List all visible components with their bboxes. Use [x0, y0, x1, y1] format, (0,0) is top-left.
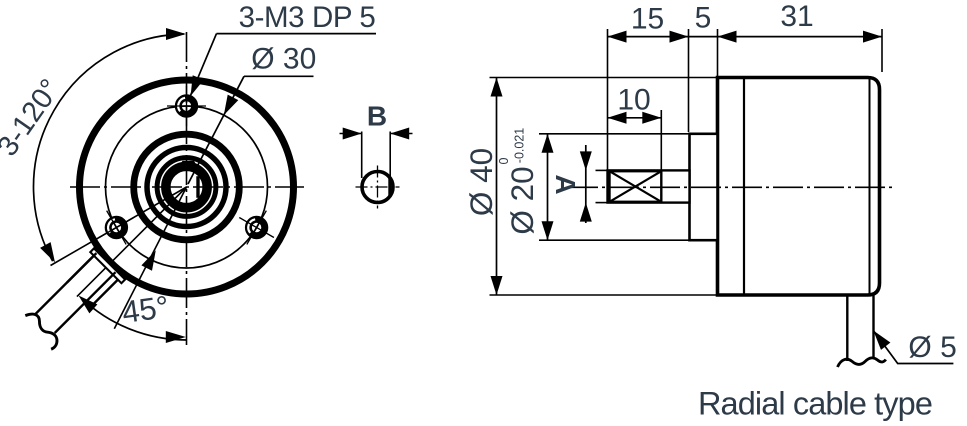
cable lower edge: [55, 272, 116, 333]
section B v centerline: [377, 166, 379, 209]
ray 117deg: [114, 187, 186, 329]
svg-text:Radial cable type: Radial cable type: [698, 386, 932, 422]
bolt hole right ticks: [230, 201, 284, 255]
svg-text:0: 0: [497, 157, 511, 164]
side body seam left: [743, 78, 745, 296]
section B flat chord: [388, 177, 391, 197]
cable upper edge: [36, 253, 97, 314]
section B left ext line: [361, 132, 363, 179]
cable boot upper edge: [67, 256, 94, 283]
top dim arrow 31 left: [718, 31, 737, 43]
dia40 ext top: [490, 77, 719, 79]
dia5 leader: [873, 331, 953, 364]
bolt hole top h tick: [167, 105, 206, 107]
svg-text:3-M3 DP 5: 3-M3 DP 5: [239, 1, 376, 34]
flat box diagonal 1: [610, 171, 662, 202]
cable axis ray 135deg: [77, 187, 187, 297]
section B dim left tail: [340, 133, 362, 135]
side shaft flat box: [610, 171, 662, 202]
side view body: [718, 78, 880, 296]
svg-text:Ø 5: Ø 5: [908, 331, 956, 364]
svg-text:31: 31: [780, 0, 813, 33]
side cable left edge: [846, 295, 848, 361]
A bottom arrow: [580, 203, 592, 222]
dia40 top arrow: [491, 78, 503, 97]
section B right arrow: [390, 128, 409, 140]
svg-text:B: B: [367, 101, 387, 132]
45 bottom arrow: [166, 331, 186, 343]
10 dim left arrow: [608, 112, 627, 124]
boss circle Ø20: [134, 134, 240, 240]
3-120 top arrow: [166, 28, 186, 40]
ext line body right: [881, 29, 883, 72]
dia20 top arrow: [542, 134, 554, 153]
svg-text:Ø 30: Ø 30: [251, 43, 316, 76]
cable gland plate: [90, 248, 125, 283]
3-M3 leader arrow: [191, 75, 204, 96]
svg-text:Ø 20: Ø 20: [504, 166, 540, 234]
bolt hole right thread arc: [248, 219, 255, 233]
keyway bump: [179, 161, 198, 168]
dia5 leader arrow: [873, 331, 890, 350]
10 ext line: [660, 110, 662, 171]
dia30 leader: [188, 76, 244, 184]
inner circle 1: [147, 148, 226, 227]
vertical centerline: [186, 32, 188, 345]
svg-text:Ø 40: Ø 40: [463, 148, 499, 216]
side cable right edge: [872, 295, 874, 357]
cable break squiggle: [21, 310, 61, 350]
A stub bottom: [596, 202, 610, 204]
bolt hole top v tick: [186, 86, 188, 126]
dia30 underline: [244, 75, 314, 77]
bolt hole right ring: [248, 219, 264, 235]
side boss rect: [690, 134, 718, 240]
top dim arrow 15 right: [670, 31, 689, 43]
svg-text:-0.021: -0.021: [513, 128, 527, 163]
svg-text:45°: 45°: [120, 289, 171, 330]
dia20 dim line: [547, 134, 549, 240]
dia40 dim line: [496, 78, 498, 296]
dia20 bottom arrow: [542, 221, 554, 240]
ext line shaft tip: [607, 29, 609, 170]
svg-text:10: 10: [617, 84, 650, 117]
bolt hole ray 150deg: [51, 187, 187, 266]
inner circle 2: [157, 158, 216, 217]
section B dim right tail: [390, 133, 412, 135]
svg-text:3-120°: 3-120°: [0, 74, 67, 163]
section B right ext line: [389, 132, 391, 179]
shaft bore flat chord: [196, 176, 199, 198]
section B h centerline: [356, 186, 400, 188]
section B left arrow: [343, 128, 362, 140]
A stub top: [596, 169, 610, 171]
dia30 leader arrow: [224, 95, 239, 116]
front view outer flange circle Ø40: [80, 80, 294, 294]
shaft annulus: [166, 166, 207, 207]
3-120 arc: [33, 34, 183, 261]
side centerline: [568, 186, 893, 188]
section B circle: [362, 172, 393, 203]
3-120 bottom arrow: [40, 242, 55, 262]
bolt hole top thread arc: [178, 98, 185, 112]
ext line body left: [717, 29, 719, 76]
45 arc: [82, 299, 186, 340]
top dim arrow 31 right: [863, 31, 882, 43]
bolt hole top ring: [178, 98, 194, 114]
cable boot lower edge: [91, 280, 118, 307]
bolt hole lower-left ring: [108, 219, 124, 235]
side cable squiggle: [838, 358, 886, 367]
10 dim right arrow: [642, 112, 661, 124]
bolt hole lower-left ticks: [89, 201, 143, 255]
side body seam right: [869, 78, 871, 296]
3-M3 underline: [217, 33, 377, 35]
horizontal centerline: [70, 186, 304, 188]
top dim arrow 15 left: [608, 31, 627, 43]
svg-text:15: 15: [631, 2, 664, 35]
svg-text:5: 5: [695, 1, 712, 34]
bolt hole lower-left thread arc: [108, 219, 115, 233]
dia40 ext bottom: [490, 294, 719, 296]
dia40 bottom arrow: [491, 276, 503, 295]
ray 117 arrow: [141, 250, 155, 270]
A dim line: [585, 145, 587, 223]
10 dim line: [608, 117, 662, 119]
bolt circle Ø30: [106, 106, 268, 268]
svg-text:A: A: [550, 174, 581, 194]
45 left arrow: [79, 296, 98, 314]
dia20 ext top: [539, 133, 690, 135]
A top arrow: [580, 151, 592, 170]
3-M3 leader: [191, 34, 217, 96]
dia20 ext bottom: [539, 239, 690, 241]
side shaft outline: [608, 170, 690, 202]
ext line boss left: [688, 29, 690, 132]
top dim line: [608, 36, 883, 38]
flat box diagonal 2: [610, 171, 662, 202]
